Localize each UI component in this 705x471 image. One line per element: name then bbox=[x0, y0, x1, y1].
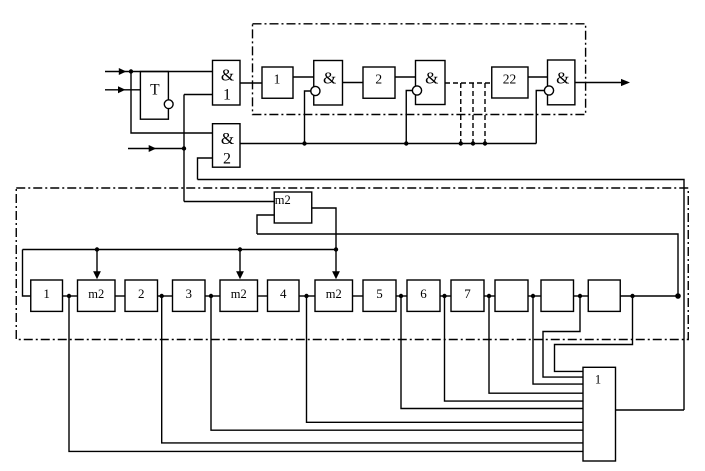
wire output of G3 bbox=[575, 82, 628, 84]
wire m2 feedback loop input bbox=[257, 215, 274, 234]
wire OR-output feedback top run bbox=[198, 180, 685, 411]
node tap6 bbox=[442, 294, 446, 298]
register cell C9 (blank) bbox=[541, 280, 574, 311]
svg-text:3: 3 bbox=[186, 286, 193, 301]
node tap9 bbox=[578, 294, 582, 298]
wire G2 bubble to feedback line bbox=[406, 91, 413, 144]
wire C3-m2b bbox=[205, 295, 220, 297]
svg-text:2: 2 bbox=[138, 286, 145, 301]
node dot dist-m2a bbox=[95, 247, 99, 251]
wire tap10 to OR input 1 bbox=[555, 296, 633, 371]
wire AND2 input 3 notch from feedback bbox=[198, 158, 213, 180]
node dot feedback-G2 bbox=[404, 141, 408, 145]
node dot feedback-dash1 bbox=[459, 141, 463, 145]
wire distribution line y249.5 bbox=[23, 249, 337, 251]
mod2 adder m2a bbox=[78, 280, 116, 311]
register cell C3 "3" bbox=[173, 280, 206, 311]
wire tap6 to OR input 5 bbox=[445, 296, 584, 401]
node tap5 bbox=[399, 294, 403, 298]
wire C1-m2a bbox=[63, 295, 78, 297]
svg-text:&: & bbox=[556, 69, 569, 88]
node dot feedback-dash3 bbox=[483, 141, 487, 145]
mod2 adder m2c bbox=[315, 280, 353, 311]
dashed vertical continuation 3 bbox=[484, 83, 486, 144]
mod2 adder m2b bbox=[220, 280, 258, 311]
wire m2a-C2 bbox=[115, 295, 125, 297]
node junction input3 / x184 bbox=[182, 146, 186, 150]
wire G1 output to block D2 bbox=[343, 82, 364, 84]
svg-text:1: 1 bbox=[595, 373, 601, 387]
register cell C4 "4" bbox=[268, 280, 300, 311]
wire C5-C6 bbox=[396, 295, 407, 297]
wire drop to m2a bbox=[96, 250, 98, 278]
arrow input 3 bbox=[149, 145, 157, 152]
wire C9-C10 bbox=[574, 295, 589, 297]
bubble G3 bbox=[544, 86, 553, 95]
register cell C1 "1" bbox=[31, 280, 63, 311]
wire input 1 horizontal bbox=[105, 71, 213, 73]
wire left down to block C1 bbox=[23, 250, 31, 297]
arrow output bbox=[621, 79, 630, 86]
bubble G1 bbox=[311, 86, 320, 95]
wire m2 output to chain bbox=[312, 208, 336, 277]
wire input 3 horizontal bbox=[128, 148, 184, 150]
svg-text:&: & bbox=[221, 66, 234, 85]
wire chain feedback line y234 bbox=[257, 234, 678, 296]
wire C4-m2c bbox=[299, 295, 315, 297]
svg-text:&: & bbox=[425, 69, 438, 88]
node chain end junction bbox=[675, 293, 681, 299]
node dot feedback-G1 bbox=[302, 141, 306, 145]
wire C6-C7 bbox=[440, 295, 451, 297]
block D2 "2" bbox=[363, 67, 395, 98]
node tap10 bbox=[630, 294, 634, 298]
inverter bubble on T output bbox=[164, 100, 173, 109]
svg-text:m2: m2 bbox=[88, 287, 104, 301]
register cell C5 "5" bbox=[363, 280, 396, 311]
svg-text:1: 1 bbox=[223, 87, 231, 104]
svg-text:5: 5 bbox=[376, 286, 383, 301]
arrow input 1 bbox=[119, 68, 127, 75]
wire input1 junction down to AND2 input a bbox=[131, 72, 213, 134]
node tap1 bbox=[67, 294, 71, 298]
arrow input 2 bbox=[118, 86, 126, 93]
svg-text:1: 1 bbox=[43, 286, 50, 301]
svg-text:7: 7 bbox=[464, 286, 471, 301]
AND gate &2 bbox=[213, 124, 241, 168]
dashed vertical continuation 1 bbox=[460, 83, 462, 144]
wire G1 bubble to feedback line bbox=[305, 91, 311, 144]
wire D22 to gate G3 bbox=[528, 76, 548, 78]
svg-text:1: 1 bbox=[274, 72, 281, 87]
svg-text:&: & bbox=[221, 129, 234, 148]
wire node x184 vertical (to AND1.in2 and m2 adder) bbox=[183, 95, 185, 202]
register cell C6 "6" bbox=[407, 280, 440, 311]
wire tap3 to OR input 8 bbox=[211, 296, 583, 430]
register cell C8 (blank) bbox=[495, 280, 528, 311]
wire tap5 to OR input 6 bbox=[401, 296, 583, 409]
wire tap2 to OR input 9 bbox=[162, 296, 583, 443]
wire tap7 to OR input 4 bbox=[489, 296, 583, 393]
svg-text:m2: m2 bbox=[275, 193, 291, 207]
wire D2 to gate G2 bbox=[395, 76, 416, 78]
wire C7-C8 bbox=[484, 295, 495, 297]
wire input 2 horizontal bbox=[105, 89, 140, 91]
arrow into m2a bbox=[93, 271, 101, 279]
AND gate &1 bbox=[213, 60, 241, 105]
trigger T bbox=[140, 72, 168, 120]
node dot m2out-distribution bbox=[334, 247, 338, 251]
bubble G2 bbox=[412, 86, 421, 95]
wire G3 bubble to feedback line bbox=[536, 91, 545, 144]
wire G2 output dashed continuation bbox=[445, 82, 492, 84]
mod2 adder m2 (top) bbox=[274, 192, 312, 223]
node junction input1 bbox=[129, 69, 133, 73]
dashed vertical continuation 2 bbox=[472, 83, 474, 144]
node dot feedback-dash2 bbox=[471, 141, 475, 145]
svg-text:2: 2 bbox=[375, 72, 382, 87]
AND gate G3 bbox=[548, 60, 575, 105]
wire C8-C9 bbox=[528, 295, 541, 297]
wire tap8 to OR input 3 bbox=[533, 296, 583, 384]
arrow into m2c bbox=[332, 271, 340, 279]
AND gate G1 bbox=[314, 61, 343, 106]
AND gate G2 bbox=[416, 61, 446, 105]
wire AND1 input 2 horizontal bbox=[184, 94, 213, 96]
OR assembler block "1" bbox=[583, 367, 616, 461]
svg-text:m2: m2 bbox=[326, 287, 342, 301]
dash-dot box decoder (lower) bbox=[16, 188, 688, 340]
register cell C2 "2" bbox=[125, 280, 158, 311]
register cell C7 "7" bbox=[451, 280, 484, 311]
wire tap4 to OR input 7 bbox=[307, 296, 584, 422]
node tap3 bbox=[209, 294, 213, 298]
node tap7 bbox=[487, 294, 491, 298]
node tap2 bbox=[160, 294, 164, 298]
node tap4 bbox=[304, 294, 308, 298]
wire input3 node to m2 input bbox=[184, 201, 274, 203]
node tap8 bbox=[531, 294, 535, 298]
wire AND2 output feedback line y143.5 bbox=[240, 143, 536, 145]
wire tap1 to OR input 10 bbox=[69, 296, 583, 451]
svg-text:T: T bbox=[150, 82, 160, 99]
wire OR output bbox=[616, 409, 685, 411]
svg-text:&: & bbox=[323, 69, 336, 88]
wire m2c-C5 bbox=[353, 295, 364, 297]
wire C2-C3 bbox=[158, 295, 173, 297]
svg-text:4: 4 bbox=[280, 286, 287, 301]
arrow into m2b bbox=[236, 271, 244, 279]
wire m2b-C4 bbox=[258, 295, 268, 297]
wire D1 to gate G1 bbox=[293, 76, 314, 78]
wire drop to m2b bbox=[239, 250, 241, 278]
svg-text:2: 2 bbox=[223, 151, 231, 168]
block D1 "1" bbox=[262, 67, 293, 98]
dash-dot box scrambler register (top) bbox=[253, 24, 586, 115]
node dot dist-m2b bbox=[238, 247, 242, 251]
svg-text:6: 6 bbox=[420, 286, 427, 301]
register cell C10 (blank) bbox=[588, 280, 620, 311]
block D22 "22" bbox=[492, 67, 528, 98]
wire tap9 to OR input 2 bbox=[543, 296, 583, 377]
svg-text:m2: m2 bbox=[231, 287, 247, 301]
wire AND1 output to block D1 bbox=[240, 82, 262, 84]
wire C10-feedback bbox=[620, 295, 678, 297]
svg-text:22: 22 bbox=[503, 72, 517, 87]
